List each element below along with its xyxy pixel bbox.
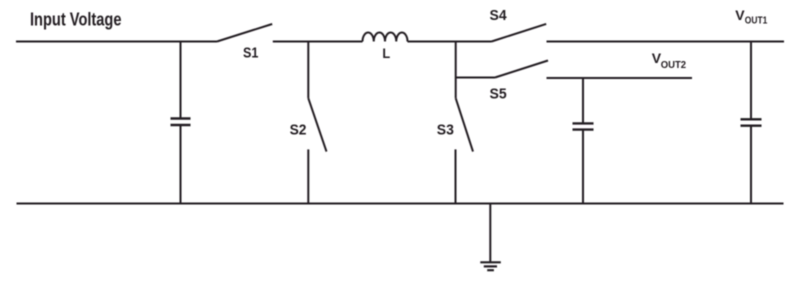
wire VOUT1 rail	[547, 41, 785, 43]
wire S2 upper	[307, 42, 309, 99]
svg-text:S1: S1	[243, 44, 258, 61]
capacitor VOUT2 bottom lead	[582, 130, 584, 204]
svg-text:L: L	[382, 45, 390, 61]
wire S2 lower	[307, 149, 309, 203]
ground stem	[489, 204, 491, 263]
wire VOUT2 rail	[547, 77, 693, 79]
capacitor VOUT1 plates	[741, 119, 762, 125]
wire S3 lower	[455, 149, 457, 203]
wire ground rail bottom	[17, 203, 784, 205]
svg-text:Input Voltage: Input Voltage	[30, 10, 122, 30]
ground bars	[480, 262, 501, 270]
svg-text:OUT2: OUT2	[661, 60, 687, 71]
capacitor VOUT1 top lead	[750, 42, 752, 120]
switch S2 blade	[308, 98, 326, 151]
wire S5 contact	[456, 77, 495, 79]
switch S3 blade	[456, 98, 473, 151]
svg-text:S3: S3	[437, 122, 454, 139]
capacitor input bottom lead	[180, 126, 182, 204]
svg-text:S4: S4	[490, 7, 508, 24]
wire switch-node vertical	[455, 42, 457, 99]
wire inductor to S4 contact	[408, 41, 492, 43]
svg-text:OUT1: OUT1	[745, 15, 768, 26]
svg-text:V: V	[735, 7, 745, 23]
switch S5 blade	[495, 61, 548, 78]
capacitor input plates	[171, 119, 191, 126]
switch S4 blade	[492, 24, 547, 42]
wire S1 to inductor	[273, 41, 363, 43]
svg-text:S5: S5	[490, 86, 507, 103]
capacitor VOUT2 top lead	[582, 78, 584, 123]
inductor L	[363, 33, 408, 42]
capacitor VOUT2 plates	[573, 123, 594, 129]
svg-text:S2: S2	[290, 122, 307, 139]
wire input rail top-left	[16, 41, 217, 43]
capacitor VOUT1 bottom lead	[750, 126, 752, 204]
capacitor input top lead	[180, 42, 182, 119]
switch S1 blade	[217, 24, 272, 42]
